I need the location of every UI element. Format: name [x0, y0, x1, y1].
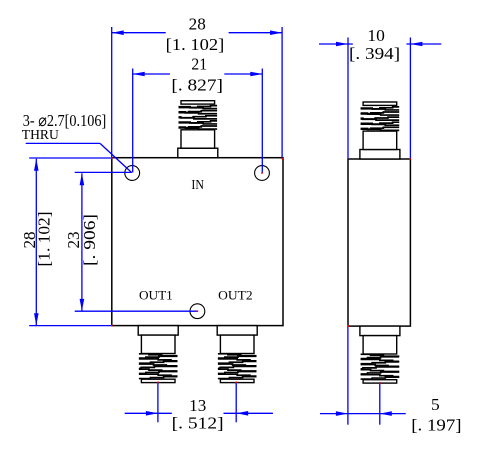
svg-text:13: 13: [189, 396, 206, 415]
svg-text:[. 827]: [. 827]: [171, 75, 223, 94]
svg-text:IN: IN: [191, 177, 204, 192]
svg-text:OUT2: OUT2: [218, 287, 252, 302]
svg-text:[. 197]: [. 197]: [411, 416, 461, 435]
svg-text:[1. 102]: [1. 102]: [166, 35, 225, 54]
svg-text:OUT1: OUT1: [139, 287, 173, 302]
svg-text:[. 394]: [. 394]: [349, 44, 400, 63]
svg-text:28: 28: [189, 14, 206, 33]
svg-text:[. 512]: [. 512]: [172, 414, 224, 433]
svg-text:[. 906]: [. 906]: [80, 214, 99, 266]
svg-text:THRU: THRU: [22, 128, 59, 143]
svg-text:10: 10: [367, 26, 385, 45]
svg-text:[1. 102]: [1. 102]: [35, 212, 54, 267]
svg-text:21: 21: [191, 55, 207, 74]
svg-text:5: 5: [431, 395, 440, 414]
